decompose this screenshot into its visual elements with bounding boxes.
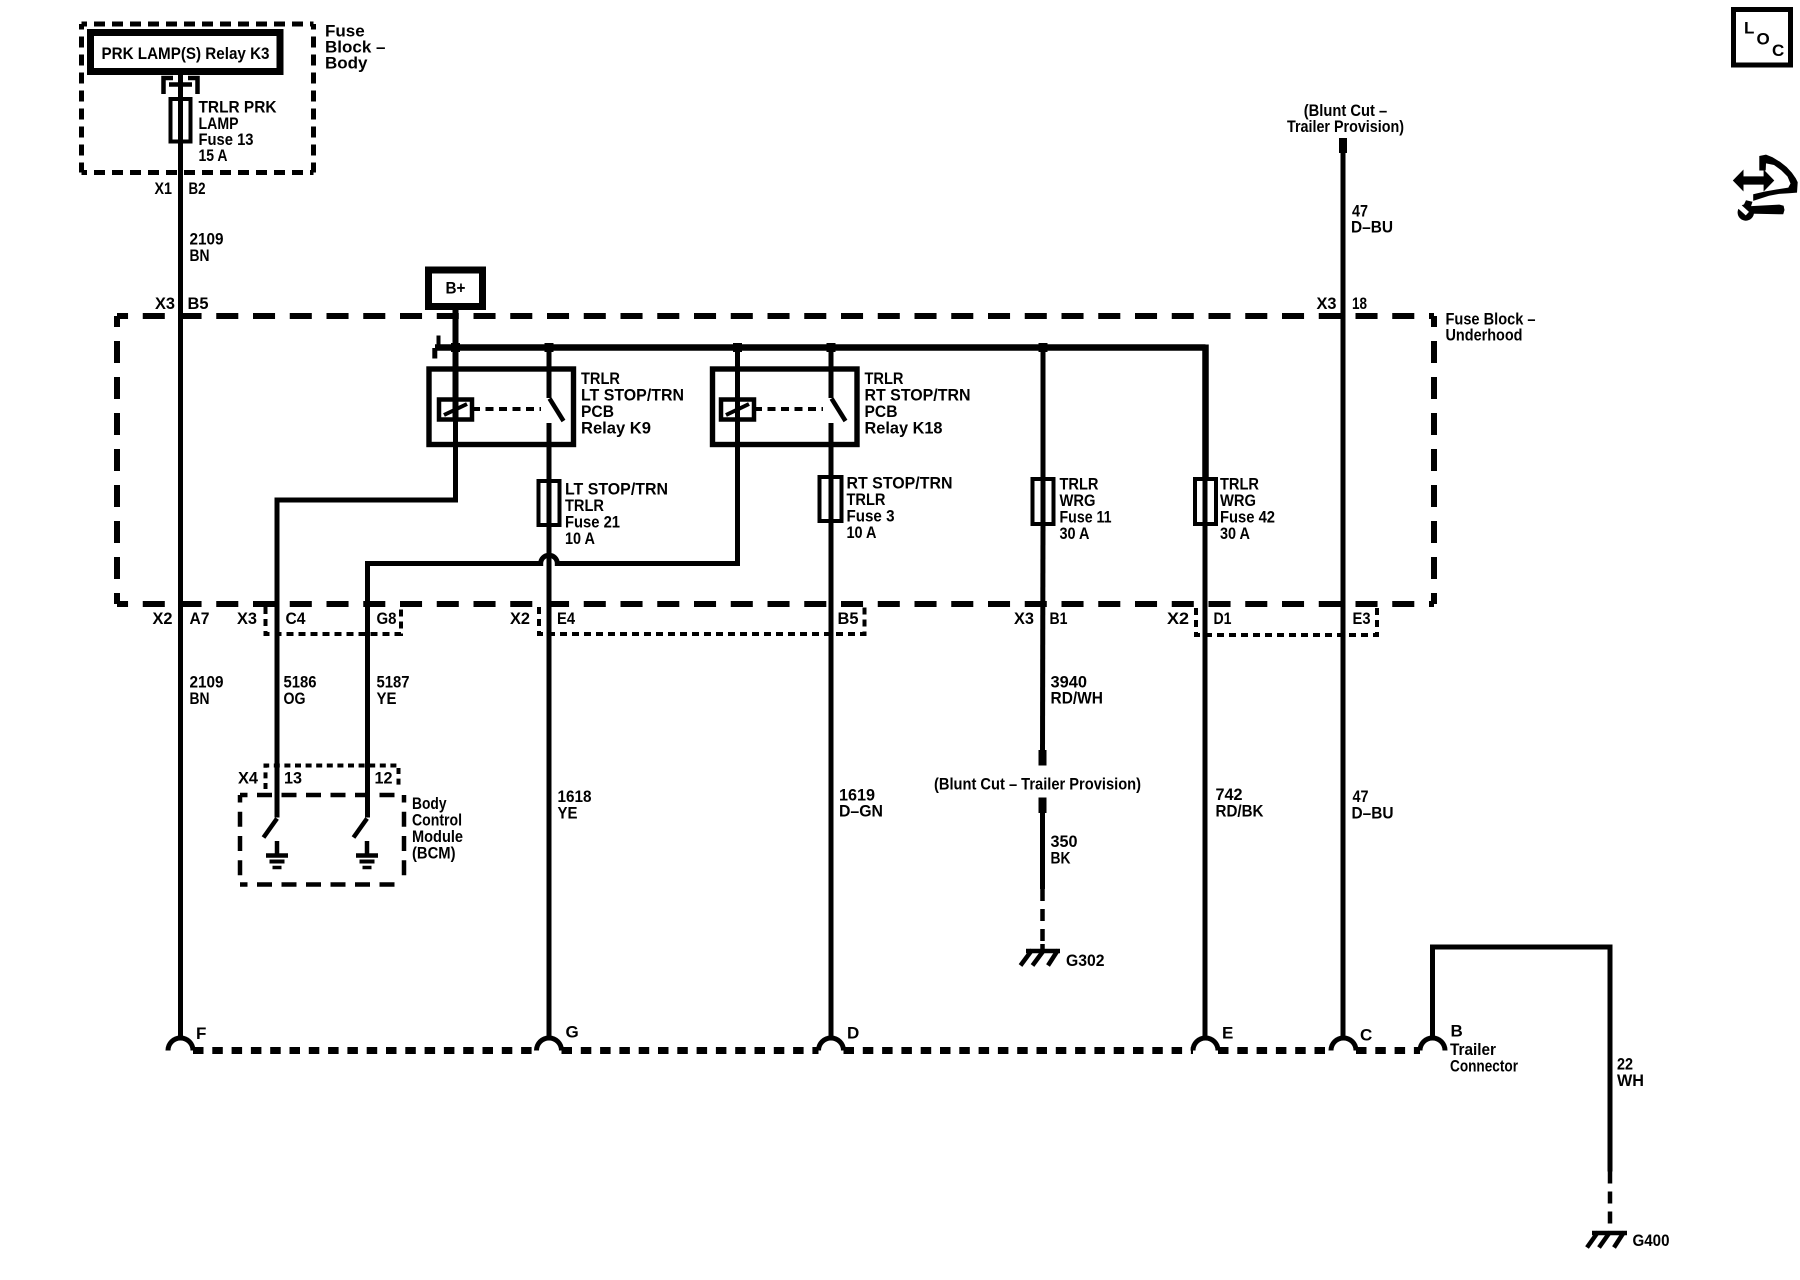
wire 1618 YE (circuit G) [547, 525, 552, 1038]
svg-text:X3: X3 [155, 294, 175, 313]
svg-text:X2: X2 [510, 609, 530, 628]
wire label 47 D-BU upper [1351, 202, 1393, 237]
svg-text:RD/WH: RD/WH [1051, 689, 1104, 708]
svg-text:F: F [196, 1024, 206, 1043]
svg-text:C: C [1360, 1026, 1372, 1045]
svg-text:X4: X4 [238, 769, 259, 788]
bus corner to fuse F42 [1202, 345, 1209, 480]
top blunt cut label [1287, 101, 1404, 136]
fuse F3 [820, 474, 953, 543]
connector row X2 E4 B5 with dotted box [510, 607, 865, 634]
relay K18 label [865, 369, 971, 438]
connector pin dome F [168, 1024, 206, 1051]
svg-text:Relay K9: Relay K9 [581, 419, 651, 438]
relay K18 coil [721, 400, 754, 420]
BCM pin 13 switch and ground [264, 819, 289, 868]
svg-text:B1: B1 [1050, 609, 1068, 628]
svg-text:E: E [1222, 1024, 1233, 1043]
relay K18 coil-switch dashed link [754, 407, 823, 411]
svg-text:X3: X3 [1014, 609, 1034, 628]
connector pin dome C [1331, 1026, 1372, 1051]
fuse F21 [539, 480, 669, 549]
svg-text:Trailer Provision): Trailer Provision) [1287, 117, 1404, 136]
relay K9 box [429, 369, 574, 445]
svg-text:E3: E3 [1353, 609, 1371, 628]
fuse block body dashed box [82, 24, 314, 173]
ground G400 [1587, 1231, 1670, 1250]
svg-text:13: 13 [284, 769, 302, 788]
hotlink icon swoosh arrow [1753, 155, 1798, 201]
svg-text:BN: BN [190, 689, 210, 708]
hotlink icon double arrow [1733, 170, 1775, 192]
relay K3 box [91, 33, 281, 72]
svg-text:15 A: 15 A [199, 146, 228, 165]
fuse block underhood label [1446, 310, 1536, 345]
svg-text:D–GN: D–GN [839, 802, 883, 821]
blunt cut marks mid wire [1039, 750, 1047, 813]
svg-text:WH: WH [1617, 1071, 1644, 1090]
svg-text:D–BU: D–BU [1352, 804, 1394, 823]
svg-text:30 A: 30 A [1220, 524, 1250, 543]
fuse F11 [1033, 475, 1112, 544]
svg-text:X2: X2 [153, 609, 173, 628]
wire label 5187 YE [377, 673, 410, 709]
relay K18 box [713, 369, 858, 445]
wire label 47 D-BU lower [1352, 787, 1394, 823]
relay K9 label [581, 369, 684, 438]
svg-text:E4: E4 [557, 609, 575, 628]
svg-text:B+: B+ [446, 279, 466, 298]
connector X4 13 12 dotted box [238, 766, 399, 790]
svg-text:PRK LAMP(S) Relay K3: PRK LAMP(S) Relay K3 [102, 44, 270, 63]
wire 47 D-BU (circuit C) [1341, 152, 1346, 1038]
wire bus to fuse F11 [1041, 348, 1046, 525]
connector pin dome G [537, 1023, 579, 1051]
relay K9 coil-switch dashed link [472, 407, 541, 411]
LOC box [1734, 10, 1791, 66]
connector pin dome D [819, 1024, 860, 1051]
relay K18 switch [831, 348, 846, 522]
svg-text:D: D [847, 1024, 859, 1043]
wire 22 WH circuit B to G400 [1433, 947, 1611, 1228]
fuse block underhood dashed box [117, 316, 1434, 604]
svg-text:RD/BK: RD/BK [1216, 802, 1265, 821]
svg-text:YE: YE [377, 689, 397, 708]
svg-text:Body: Body [325, 53, 368, 72]
svg-text:X2: X2 [1167, 609, 1189, 628]
BCM label [412, 794, 463, 863]
fuse F42 [1195, 475, 1275, 544]
svg-text:BK: BK [1051, 849, 1072, 868]
svg-text:G400: G400 [1633, 1231, 1670, 1250]
svg-text:10 A: 10 A [847, 523, 877, 542]
wire label 2109 BN upper [190, 230, 224, 266]
hotlink icon wrench [1735, 200, 1785, 220]
wire 350 BK to ground [1040, 813, 1045, 951]
ground G302 [1021, 950, 1105, 970]
wire label 2109 BN lower [190, 673, 224, 709]
connector row X2 D1 E3 with dotted box [1167, 608, 1377, 635]
wire K9 coil to BCM pin 13 (5186 OG) [277, 420, 456, 818]
svg-text:B: B [1451, 1022, 1463, 1041]
trailer connector dotted line [193, 1047, 1420, 1054]
wire bus to K18 coil [735, 348, 740, 420]
junction dots on bus [451, 343, 1048, 352]
svg-text:X3: X3 [237, 609, 257, 628]
connector row X3 C4 G8 with dotted box [237, 607, 401, 634]
connector X1 B2 [155, 179, 206, 198]
connector row X3 B1 [1014, 609, 1068, 628]
relay K9 coil [439, 400, 472, 420]
wire label 3940 RD/WH [1051, 673, 1104, 708]
svg-text:G8: G8 [377, 609, 397, 628]
wire 1619 D-GN (circuit D) [829, 521, 834, 1038]
svg-text:X3: X3 [1317, 294, 1337, 313]
blunt cut trailer provision mid label [934, 775, 1141, 794]
bus bar with hook [435, 336, 1206, 359]
svg-text:X1: X1 [155, 179, 173, 198]
svg-text:C4: C4 [286, 609, 306, 628]
svg-text:(Blunt Cut – Trailer Provision: (Blunt Cut – Trailer Provision) [934, 775, 1141, 794]
fuse block body label [325, 21, 385, 72]
svg-text:YE: YE [558, 804, 578, 823]
svg-text:D–BU: D–BU [1351, 218, 1393, 237]
svg-text:10 A: 10 A [565, 529, 595, 548]
wire 742 RD/BK (circuit E) [1203, 479, 1208, 1038]
fuse F13 TRLR PRK LAMP 15A [171, 98, 278, 166]
connector pin dome E [1193, 1024, 1233, 1051]
wire 2109 BN (circuit F) vertical [178, 72, 183, 1039]
svg-text:Underhood: Underhood [1446, 326, 1523, 345]
svg-text:(BCM): (BCM) [412, 844, 456, 863]
svg-text:Connector: Connector [1450, 1057, 1518, 1076]
blunt cut top mark [1339, 138, 1347, 153]
wire label 1618 YE [558, 787, 592, 823]
B+ feed wire [453, 307, 459, 420]
connector row X2 A7 [153, 609, 210, 628]
fuse holder terminal brackets [164, 78, 198, 94]
wire 3940 RD/WH below fuse 11 [1040, 524, 1046, 752]
svg-text:C: C [1772, 41, 1784, 60]
connector pin dome B [1420, 1022, 1463, 1051]
wire label 742 RD/BK [1216, 785, 1265, 821]
svg-text:A7: A7 [190, 609, 210, 628]
B+ terminal box [429, 270, 483, 307]
wire label 350 BK [1051, 832, 1078, 868]
svg-text:D1: D1 [1214, 609, 1232, 628]
relay K9 switch [549, 348, 564, 526]
svg-text:BN: BN [190, 246, 210, 265]
svg-text:B2: B2 [189, 179, 206, 198]
connector X3 18 [1317, 294, 1368, 313]
svg-text:OG: OG [284, 689, 306, 708]
connector X3 B5 [155, 294, 209, 313]
svg-text:G: G [566, 1023, 579, 1042]
wire label 5186 OG [284, 673, 317, 709]
BCM pin 12 switch and ground [354, 819, 379, 868]
svg-text:Relay K18: Relay K18 [865, 419, 943, 438]
wire label 22 WH [1617, 1055, 1644, 1091]
svg-text:B5: B5 [838, 609, 859, 628]
svg-text:L: L [1744, 19, 1754, 38]
svg-text:12: 12 [375, 769, 393, 788]
wire K18 coil to BCM pin 12 (5187 YE) with hop [368, 420, 738, 818]
svg-text:30 A: 30 A [1060, 524, 1090, 543]
trailer connector label [1450, 1040, 1518, 1076]
svg-text:B5: B5 [188, 294, 209, 313]
svg-text:G302: G302 [1066, 951, 1105, 970]
svg-text:18: 18 [1352, 294, 1367, 313]
wire label 1619 D-GN [839, 786, 883, 821]
svg-text:O: O [1757, 30, 1770, 49]
BCM dashed box [240, 795, 404, 885]
